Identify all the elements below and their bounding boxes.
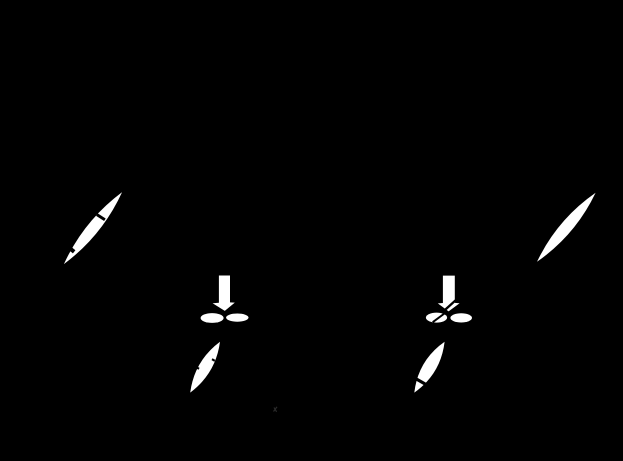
small leaf (below left group) xyxy=(190,342,220,393)
left pad pair (two white ellipses) xyxy=(201,313,249,323)
down arrow (right group, slashed head) xyxy=(438,276,460,312)
right pad pair (left one slashed) xyxy=(426,312,472,323)
large leaf (upper-right) xyxy=(537,193,596,262)
down arrow (left group) xyxy=(213,276,235,311)
faint gray squiggle (bottom center) xyxy=(274,407,278,412)
pen (upper-left, white with clip notches) xyxy=(64,192,122,264)
small leaf (below right group, notched tip) xyxy=(414,342,444,393)
